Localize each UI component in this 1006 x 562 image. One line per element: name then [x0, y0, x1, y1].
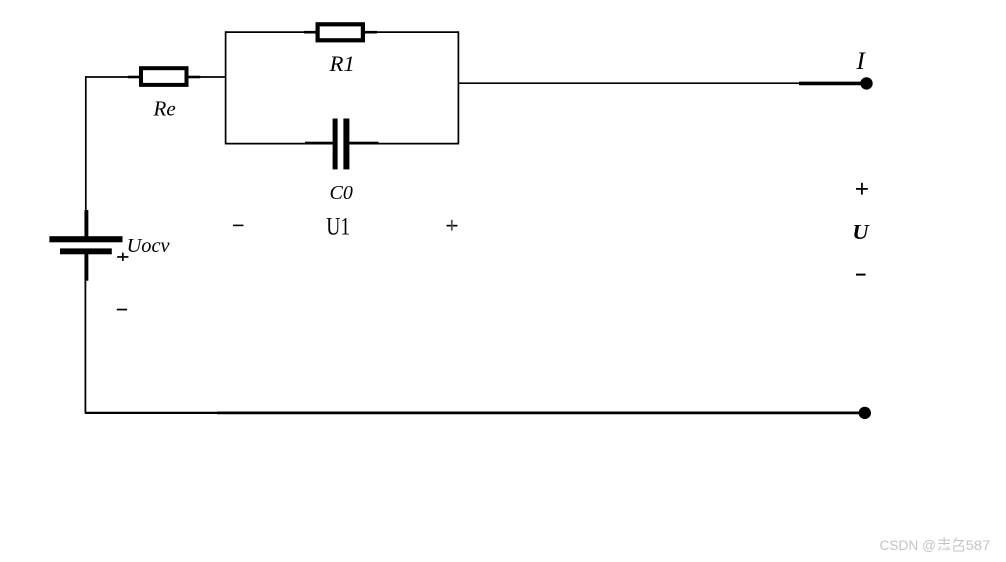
label output + sign	[856, 183, 868, 195]
battery Uocv plate short (bottom)	[60, 248, 112, 254]
label R1	[329, 51, 355, 76]
wire: bold lead out of battery bottom plate	[84, 249, 88, 281]
wire: left vertical lower segment (battery - terminal down to bottom wire)	[84, 280, 86, 413]
svg-text:Uocv: Uocv	[127, 235, 170, 257]
node: negative terminal dot	[859, 407, 871, 419]
capacitor C0 right lead	[349, 142, 378, 145]
label battery - sign	[117, 309, 127, 311]
label U (terminal voltage)	[852, 220, 870, 244]
resistor R1 body	[318, 24, 363, 40]
label Re	[153, 97, 176, 121]
label U1 plus sign (right polarity)	[447, 220, 458, 231]
capacitor C0 left lead	[305, 142, 333, 145]
watermark CSDN @...	[880, 537, 991, 554]
svg-text:CSDN @: CSDN @	[880, 538, 937, 554]
svg-text:I: I	[855, 46, 866, 75]
wire: bold lead into battery top plate	[84, 210, 88, 241]
resistor Re body	[141, 68, 187, 85]
wire: output top thin segment	[458, 82, 800, 84]
capacitor C0 left plate	[333, 119, 338, 170]
label U1 minus sign (left polarity)	[233, 225, 244, 227]
node: positive terminal dot	[860, 77, 872, 89]
resistor Re left lead stub	[128, 76, 140, 79]
wire: left vertical upper segment (battery + terminal up to top wire)	[85, 76, 87, 212]
svg-text:U1: U1	[326, 214, 350, 241]
label C0	[330, 182, 353, 204]
wire: top-left horizontal from battery node to RC loop	[85, 76, 226, 78]
label Uocv	[127, 235, 170, 257]
battery Uocv plate long (top)	[49, 236, 122, 242]
label battery + sign	[117, 253, 128, 261]
svg-text:U: U	[852, 220, 870, 244]
svg-text:587: 587	[966, 538, 991, 554]
resistor Re right lead stub	[189, 76, 201, 79]
wire: bottom horizontal right segment	[217, 411, 865, 414]
label I	[855, 46, 866, 75]
resistor R1 right lead stub	[365, 31, 377, 34]
wire: output top bold segment	[799, 82, 866, 86]
svg-text:Re: Re	[153, 97, 176, 121]
label output - sign	[856, 274, 866, 276]
resistor R1 left lead stub	[304, 31, 316, 34]
wire: bottom horizontal left segment	[85, 412, 217, 414]
svg-text:R1: R1	[329, 51, 355, 76]
svg-text:C0: C0	[330, 182, 353, 204]
wire: RC loop rectangle (top, left, right, bottom edges)	[226, 31, 459, 144]
capacitor C0 right plate	[343, 119, 349, 170]
label U1	[326, 214, 350, 241]
